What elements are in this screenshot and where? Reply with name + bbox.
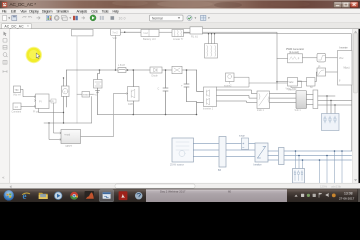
svg-text:Inverter 1: Inverter 1 xyxy=(203,108,214,111)
wire K to scope xyxy=(326,57,338,59)
constant Vdc ref xyxy=(13,86,21,96)
vdc sense vertical xyxy=(115,36,117,71)
svg-text:surge: surge xyxy=(239,134,245,137)
diode block xyxy=(150,67,162,77)
boost inductor xyxy=(118,64,128,73)
svg-text:10.0: 10.0 xyxy=(119,16,126,20)
active tab AC_DC_AC xyxy=(2,23,32,28)
DG source block xyxy=(170,138,194,166)
pale annotation line vertical xyxy=(76,36,78,123)
gate signal wire xyxy=(81,94,126,137)
svg-text:mean: mean xyxy=(83,95,89,97)
svg-text:breaker: breaker xyxy=(254,163,262,166)
wire top right long xyxy=(203,34,352,151)
svg-text:60: 60 xyxy=(228,190,232,194)
svg-text:>mod: >mod xyxy=(64,134,71,137)
svg-text:Tools: Tools xyxy=(102,9,109,13)
svg-text:780: 780 xyxy=(15,89,20,92)
pulse generator block xyxy=(61,130,81,148)
mouse cursor xyxy=(36,53,40,58)
svg-text:Sub 1: Sub 1 xyxy=(295,109,302,112)
svg-text:Diagram: Diagram xyxy=(42,9,53,13)
bottom status / scrollbar xyxy=(0,183,360,189)
svg-text:Diode: Diode xyxy=(152,74,159,77)
svg-text:Analysis: Analysis xyxy=(77,9,88,13)
svg-text:AC_DC_AC *: AC_DC_AC * xyxy=(10,2,37,7)
svg-text:Day 2 Webinar 2017: Day 2 Webinar 2017 xyxy=(160,190,186,194)
vabc prim blocks xyxy=(286,78,298,91)
wire display to scope block xyxy=(121,31,142,33)
pwm out wire xyxy=(303,57,318,59)
three-phase drop to source xyxy=(208,33,215,44)
svg-text:Inverter: Inverter xyxy=(340,47,348,50)
node j2 xyxy=(99,69,101,71)
rate block K xyxy=(317,53,326,62)
left corner down to voltmeter xyxy=(66,70,68,86)
svg-text:Simulation: Simulation xyxy=(56,9,68,13)
start orb xyxy=(4,190,14,201)
dc top wire xyxy=(67,69,197,71)
svg-text:Normal: Normal xyxy=(152,16,163,20)
measurement B3 xyxy=(218,137,226,173)
goto tag xyxy=(288,81,302,92)
svg-text:>1.2: >1.2 xyxy=(143,32,148,35)
svg-text:IGBT: IGBT xyxy=(128,103,134,106)
three-phase RLC load bottom xyxy=(293,169,305,184)
snubber block E xyxy=(172,66,182,73)
svg-text:C: C xyxy=(158,88,160,91)
taskbar icon: chrome xyxy=(70,192,78,200)
svg-text:25 kV source: 25 kV source xyxy=(170,163,185,166)
show desktop sliver xyxy=(358,189,360,202)
taskbar icon: folder xyxy=(39,193,48,199)
wire const2 to PI xyxy=(21,106,36,108)
phase lines left xyxy=(194,144,256,157)
svg-text:PI: PI xyxy=(39,100,42,104)
LC filter transformer xyxy=(257,91,270,112)
svg-text:Help: Help xyxy=(113,9,119,13)
svg-text:Code: Code xyxy=(91,9,98,13)
annotation box xyxy=(72,29,94,36)
PI out tag xyxy=(49,99,56,103)
taskbar icon: media xyxy=(54,192,62,200)
wire C-D xyxy=(184,32,191,34)
transformer block C xyxy=(172,30,184,41)
dc meter block xyxy=(224,73,249,87)
RL branch block D xyxy=(190,27,203,39)
universal bridge inverter xyxy=(203,87,217,111)
canvas background xyxy=(10,29,353,183)
svg-text:Vdc ref: Vdc ref xyxy=(13,93,21,96)
subsystem gray block xyxy=(295,91,307,113)
model tab bar xyxy=(0,23,360,29)
PI controller xyxy=(33,94,49,113)
svg-text:File: File xyxy=(2,9,7,13)
taskbar icon: help viewer xyxy=(135,192,142,199)
toolbar xyxy=(0,14,360,23)
svg-text:Edit: Edit xyxy=(11,9,16,13)
feedback wire h xyxy=(44,97,92,124)
load taps xyxy=(326,95,335,113)
svg-text:RL b1: RL b1 xyxy=(191,34,198,38)
three-phase RLC load top xyxy=(322,114,340,131)
phase lines right xyxy=(268,151,352,160)
inverter measurement wire xyxy=(217,83,292,87)
capacitor C xyxy=(158,69,169,115)
svg-text:trafo 1: trafo 1 xyxy=(257,109,264,112)
svg-text:7e+2: 7e+2 xyxy=(112,31,118,34)
wire signal to pwm xyxy=(277,57,288,59)
gate arrow xyxy=(126,93,128,95)
three-phase source block xyxy=(205,44,218,58)
window buttons min/max/close xyxy=(334,2,359,8)
wire PI feedback bottom xyxy=(39,109,64,113)
tray icons xyxy=(295,193,336,198)
wire tag down to pulse block xyxy=(54,103,62,134)
window title bar xyxy=(0,0,360,9)
taskbar icon: matlab xyxy=(85,191,95,201)
svg-text:Constant: Constant xyxy=(12,111,22,114)
voltage measurement xyxy=(62,77,70,123)
svg-text:Vabc_prim: Vabc_prim xyxy=(286,88,297,91)
svg-text:13:08: 13:08 xyxy=(344,192,353,196)
IGBT switch xyxy=(128,69,140,115)
menu bar xyxy=(0,9,360,14)
taskbar icon: simulink active xyxy=(100,190,114,202)
breaker block xyxy=(254,143,269,166)
measurement out wires xyxy=(318,96,352,105)
yellow highlight circle xyxy=(26,47,42,63)
wire L to scope xyxy=(326,71,338,73)
far right feeder drops xyxy=(319,150,343,183)
small tap block xyxy=(239,134,249,149)
scope subsystem xyxy=(338,47,353,85)
node j1 xyxy=(124,31,126,33)
svg-text:View: View xyxy=(20,9,27,13)
mag block O xyxy=(298,72,318,86)
display block Vdc xyxy=(111,29,121,40)
constant 2 xyxy=(12,103,22,114)
right scrollbar xyxy=(353,29,359,183)
taskbar translucent middle xyxy=(146,189,287,202)
inverter dc- feed xyxy=(187,102,204,115)
svg-text:M(pu): M(pu) xyxy=(344,68,350,70)
svg-text:Vabc: Vabc xyxy=(289,82,295,84)
measurement Z1 xyxy=(279,148,285,165)
battery branch xyxy=(85,70,102,115)
load drops xyxy=(295,150,304,168)
inverter dc+ feed xyxy=(197,70,204,91)
VI measurement strip xyxy=(307,87,318,109)
mean block xyxy=(77,92,98,98)
wire const1 to PI xyxy=(21,89,36,97)
taskbar icon: IE xyxy=(22,191,30,201)
svg-text:scope2: scope2 xyxy=(224,85,232,87)
wire down to pulse gen in2 xyxy=(49,123,61,140)
dc bottom wire xyxy=(98,114,197,116)
gain block L xyxy=(317,66,326,76)
svg-text:ode23tb: ode23tb xyxy=(331,184,342,188)
scope block B xyxy=(141,29,159,41)
svg-text:Battery ctrl: Battery ctrl xyxy=(143,37,156,41)
svg-text:27-06-2017: 27-06-2017 xyxy=(339,196,355,200)
app icon xyxy=(2,2,7,7)
svg-text:Linear Tr: Linear Tr xyxy=(173,37,183,41)
svg-text:125%: 125% xyxy=(320,184,328,188)
svg-text:Display: Display xyxy=(29,9,39,13)
svg-text:×: × xyxy=(27,24,29,28)
inverter phase wires xyxy=(217,90,258,103)
left tool palette xyxy=(0,29,10,183)
svg-text:MPPT: MPPT xyxy=(66,145,73,148)
long signal wire to PWM column xyxy=(125,32,277,90)
svg-text:AC_DC_AC: AC_DC_AC xyxy=(5,24,25,28)
filter to meas wires xyxy=(270,94,297,103)
svg-text:L 5mH: L 5mH xyxy=(118,64,125,67)
taskbar icon: adobe xyxy=(119,191,128,200)
capacitor C1 xyxy=(181,69,189,101)
PWM generator block xyxy=(288,54,303,63)
svg-text:e: e xyxy=(23,191,27,201)
svg-text:Vdc: Vdc xyxy=(113,36,118,40)
